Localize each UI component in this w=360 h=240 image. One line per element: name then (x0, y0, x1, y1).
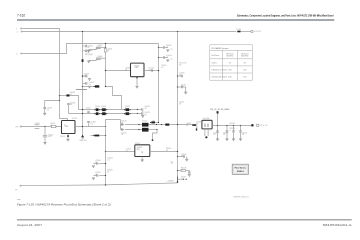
wire stub C5103 (88, 123, 90, 126)
wire U5201 output (150, 151, 178, 153)
wire U5001 to ground (136, 77, 138, 86)
capacitor C5104 (122, 123, 123, 126)
svg-text:C5011: C5011 (86, 108, 91, 110)
junction right T5101 top (99, 109, 100, 110)
capacitor C5012 (86, 82, 87, 85)
capacitor C5005 (96, 47, 101, 48)
wire stub C5209 (178, 156, 184, 158)
svg-text:R5102: R5102 (60, 136, 65, 138)
caption tick (17, 198, 21, 200)
svg-text:L5001: L5001 (237, 29, 242, 31)
junction x82.5 y126.5 (82, 126, 83, 127)
wire net B cont (241, 31, 252, 33)
pin 4 terminal (20, 185, 21, 186)
wire IF output (212, 125, 251, 127)
junction bus2 top a (156, 124, 157, 125)
wire stub R5011 (159, 47, 164, 49)
capacitor C5018 (142, 108, 143, 111)
wire U5001 output (144, 70, 159, 72)
svg-text:FL5201: FL5201 (203, 118, 209, 120)
wire bus1 top end stub (138, 109, 142, 111)
inductor L5004 body (104, 48, 106, 52)
capacitor C5205 (97, 174, 98, 177)
junction x158.6 y57.5 (158, 57, 159, 58)
wire LO stub (153, 130, 158, 140)
coupler T5103 top body (126, 108, 130, 111)
wire C5005 to ground (89, 48, 97, 49)
wire C5210 drop (188, 171, 190, 173)
wire stub C5007 (83, 75, 86, 77)
junction x105.5 y47.3 (105, 47, 106, 48)
junction x59.5 y95.5 (59, 95, 60, 96)
ground U5001 (135, 86, 138, 88)
junction x105.3 rail C (105, 43, 106, 44)
wire to C5102 (44, 127, 46, 136)
junction x105.5 y86.5 (105, 86, 106, 87)
wire stub R5208 (178, 170, 182, 172)
LNA U5101 (62, 121, 76, 134)
resistor R5102 body (67, 135, 69, 137)
svg-text:August 24, 2007: August 24, 2007 (17, 223, 43, 227)
junction right T5103 top (129, 109, 130, 110)
svg-text:5008-2: 5008-2 (237, 171, 245, 173)
junction left T5102 top (101, 109, 102, 110)
junction x82.5 bus1 top (82, 109, 83, 110)
svg-text:6816533H01-A: 6816533H01-A (323, 223, 352, 227)
capacitor C5014 (164, 56, 165, 59)
mixer U5201 (135, 145, 150, 157)
junction x177.5 y151.5 (177, 151, 178, 152)
inductor L5013 body (165, 124, 169, 126)
svg-text:39: 39 (229, 62, 231, 64)
wire bead to x158.5 (155, 122, 159, 124)
junction x82.5 y76 (82, 75, 83, 76)
IF filter FL5201 (202, 120, 212, 129)
wire vertical column x=177.5 (177, 32, 179, 183)
wire C5102 to ground (44, 137, 46, 142)
wire FL5201 pin2 drop (207, 129, 209, 136)
resistor R5208 body (181, 170, 186, 172)
junction left T5101 bottom (94, 113, 95, 114)
junction IF y125.5 d (240, 125, 241, 126)
junction x105.5 y163.5 (105, 163, 106, 164)
junction IF y125.5 a (217, 125, 218, 126)
wire C5204 to ground (93, 163, 96, 165)
junction x177.5 y87 (177, 86, 178, 87)
wire net B: pin2 supply rail (22, 31, 237, 33)
wire to ground R5011 (165, 47, 168, 49)
svg-text:GND_FLG: GND_FLG (79, 140, 87, 142)
wire bus2 top (125, 124, 142, 126)
svg-text:T5201: T5201 (142, 120, 147, 122)
junction bus2 bottom pre-block (138, 129, 139, 130)
wire to bus2 feed (106, 120, 121, 127)
junction left T5101 top (94, 109, 95, 110)
junction right T5103 bottom (129, 113, 130, 114)
capacitor C5009 (67, 104, 70, 105)
wire bottom net (21, 183, 178, 186)
svg-text:NC_IN_B: NC_IN_B (85, 54, 93, 56)
ground U5101 (66, 139, 69, 141)
wire C5214 to ground (226, 132, 228, 139)
junction x105.5 y135.5 (105, 135, 106, 136)
wire stub C5204 (99, 163, 106, 165)
coupler T5103 bottom body (126, 112, 130, 115)
wire stub C5003 (83, 45, 85, 47)
capacitor C5213 (216, 131, 219, 132)
wire C5216 to ground (240, 132, 242, 139)
svg-text:1-10V_RX_FE: 1-10V_RX_FE (254, 31, 262, 33)
junction x177.5 y156.5 (177, 156, 178, 157)
junction x158.5 y122.5 (158, 122, 159, 123)
wire to C5213 (217, 126, 219, 131)
footer rule (17, 219, 352, 221)
svg-text:7-162: 7-162 (17, 14, 25, 18)
wire bus1 bottom feed (68, 105, 70, 114)
junction bus2 top b (161, 124, 162, 125)
net flag RX_IF (217, 111, 219, 113)
wire bus2 bottom feed stub (121, 129, 125, 131)
junction bus2 top pre-block (138, 124, 139, 125)
table: RX front end versions (210, 45, 253, 80)
wire to L5008 (60, 95, 67, 97)
wire L5103 to x106 (99, 135, 105, 137)
wire stub C5017 (178, 86, 182, 88)
junction IF y125.5 c (233, 125, 234, 126)
junction x158.5 y70.5 (158, 70, 159, 71)
IC U5001 (131, 63, 145, 77)
wire to ground C5017 (183, 86, 186, 88)
ground C5204 (92, 166, 95, 168)
wire U5201 to ground (141, 157, 143, 160)
connector arrow to sheet 1 (251, 31, 253, 33)
coupler T5101 top body (96, 108, 99, 111)
wire stub C5016 (178, 75, 182, 77)
junction x82.5 rail B (82, 31, 83, 32)
wire y86.5 to mixer bead (83, 86, 96, 88)
wire to ground C5014 (165, 57, 168, 59)
capacitor C5105 (122, 128, 123, 131)
capacitor C5007 (86, 75, 87, 78)
wire y135.5 left (91, 135, 95, 137)
junction x59.5 y100.5 (59, 100, 60, 101)
wire stub C5012B (159, 57, 164, 59)
capacitor C5019 (142, 112, 143, 115)
wire L5008 to bus top (70, 96, 79, 110)
capacitor C5011A (164, 46, 165, 49)
junction x177.5 y170.5 (177, 170, 178, 171)
svg-text:U5101: U5101 (72, 118, 77, 120)
inductor L5204 body (192, 124, 196, 126)
capacitor C5010 (43, 107, 46, 108)
ground C5214 (225, 139, 228, 141)
svg-text:2: 2 (17, 31, 18, 33)
junction x82.5 y87 (82, 86, 83, 87)
inductor L5001 body (237, 31, 240, 33)
wire bus2 bottom (125, 129, 142, 131)
junction bus1 end bottom (137, 113, 138, 114)
wire vertical column x=105.3 (105, 44, 107, 87)
wire stub C5005 (96, 46, 105, 48)
inductor L5101 body (51, 125, 56, 127)
junction x177.5 rail B (177, 31, 178, 32)
svg-text:RX LNA/MIX Versions: RX LNA/MIX Versions (211, 47, 228, 50)
wire C5018/19 join (142, 110, 144, 116)
capacitor C5013 (151, 69, 152, 72)
wire bus1 bottom end stub (138, 113, 142, 115)
capacitor C5103 (87, 122, 90, 123)
capacitor C5203 body (196, 128, 197, 130)
junction left T5103 top (124, 109, 125, 110)
junction RF y126.5 (44, 126, 45, 127)
ground flag x82.5 (81, 135, 84, 138)
capacitor C5003 (85, 45, 86, 48)
capacitor C5006 (96, 58, 101, 59)
capacitor C5011 bridge (87, 111, 90, 112)
junction bus2 bottom end (156, 129, 157, 130)
svg-text:RX_IF_61.35_MHZ: RX_IF_61.35_MHZ (210, 109, 230, 111)
ground bus1 caps (141, 116, 144, 118)
wire C5010 to ground (44, 108, 46, 113)
svg-text:700 MHz: 700 MHz (226, 56, 233, 58)
capacitor C5016 (181, 75, 182, 78)
junction x105.5 y151.5 (105, 151, 106, 152)
svg-text:L5202: L5202 (170, 161, 173, 165)
capacitor C5204 (97, 162, 98, 165)
pin 1 terminal (21, 28, 22, 29)
svg-text:C5101: C5101 (35, 123, 40, 125)
capacitor C5214 (226, 131, 229, 132)
wire net C: pin3 bias rail (21, 44, 158, 54)
junction x105.5 y175.5 (105, 175, 106, 176)
junction x158.6 y47.5 (158, 47, 159, 48)
IC U5001 pin nub (136, 77, 138, 78)
wire RF in (21, 126, 62, 128)
inductor L5008 body (66, 94, 69, 96)
wire to C5214 (226, 126, 228, 131)
svg-text:L_MIXER: L_MIXER (166, 181, 174, 183)
mixer U5201 pin mark (141, 151, 143, 153)
ground C5102 (43, 142, 46, 144)
ground C5213 (216, 139, 219, 141)
76.1 (76, 89, 87, 91)
wire net A: pin1 to U5101 top (21, 29, 67, 121)
junction left L5103 (93, 135, 94, 136)
wire U5101 output (75, 126, 106, 128)
ground R5011 (166, 50, 169, 52)
wire C5006 to ground (89, 59, 97, 60)
ground C5006 (87, 61, 90, 63)
capacitor C5210 (188, 172, 191, 173)
svg-text:800 MHz: 800 MHz (241, 56, 248, 58)
capacitor C5101 (35, 125, 40, 129)
wire C5213 to ground (217, 132, 219, 139)
wire C5209 ground drop (186, 157, 188, 159)
svg-text:CR5001 BL BLVD: CR5001 BL BLVD (211, 77, 227, 79)
ground C5210 (188, 175, 191, 177)
wire to C5215 (233, 126, 235, 131)
wire FL5201 pin1 drop (204, 129, 206, 136)
wire bus2 top feed stub (121, 124, 125, 126)
wire bus1 bottom (69, 113, 138, 115)
svg-text:Part Series: Part Series (235, 167, 247, 170)
ground C5014 (166, 60, 169, 62)
header rule (17, 19, 334, 21)
ground C5010 (43, 113, 46, 115)
note box: Part Series (232, 164, 248, 174)
wire x105 to U5001 (106, 70, 131, 72)
inductor L5005 body (95, 85, 99, 87)
junction x105.5 y70.5 (105, 70, 106, 71)
junction right T5102 top (106, 109, 107, 110)
pin 2 terminal (21, 31, 22, 32)
ground C5012 (88, 86, 91, 88)
wire C5215 to ground (233, 132, 235, 139)
RF input terminal (20, 126, 22, 128)
filter T5201 bottom body (142, 128, 149, 132)
svg-text:39: 39 (244, 62, 246, 64)
wire bottom corner dark (177, 177, 179, 183)
capacitor C5004 (85, 50, 86, 53)
capacitor C5102 (43, 136, 47, 137)
ground C5007 (88, 79, 91, 81)
svg-text:P4: P4 (15, 190, 17, 192)
junction bottom right (177, 181, 179, 183)
svg-text:C5001: C5001 (211, 62, 216, 64)
junction x177.5 y124.5 (177, 124, 178, 125)
junction left R5201 (150, 122, 151, 123)
wire vertical column x=82.5 (82, 32, 84, 136)
svg-text:RX_IF_OUT: RX_IF_OUT (260, 125, 268, 127)
junction x177.5 y76 (177, 75, 178, 76)
junction right T5101 bottom (99, 113, 100, 114)
junction right T5102 bottom (106, 113, 107, 114)
capacitor C5216 (239, 131, 242, 132)
svg-text:51: 51 (171, 58, 173, 60)
svg-text:OSSPF-47823-O: OSSPF-47823-O (233, 197, 249, 199)
junction left of L5005 (94, 86, 95, 87)
ground C5205 (92, 178, 95, 180)
wire vertical bias column x=158.6 (158, 44, 160, 123)
ground C5216 (239, 139, 242, 141)
junction left T5102 bottom (101, 113, 102, 114)
svg-text:U5201: U5201 (135, 143, 140, 145)
coupler T5102 top body (102, 108, 106, 111)
junction bus1 end top (137, 109, 138, 110)
wire bus2 feed vertical (120, 120, 122, 130)
connector pin RX IF out (251, 124, 253, 126)
svg-text:Figure 7-135. HUF4017A Receiv: Figure 7-135. HUF4017A Receiver Front-En… (17, 202, 111, 206)
wire stub C5004 (83, 50, 85, 52)
wire R5208 to C5210 (186, 170, 190, 172)
ground U5201 (141, 160, 144, 162)
junction IF y125.5 b (226, 125, 227, 126)
ground C5005 (87, 50, 90, 52)
ground C5209 (185, 159, 188, 161)
wire U5101 to ground (67, 134, 69, 139)
ground C5215 (232, 139, 235, 141)
ferrite bead E5001 body (82, 59, 84, 62)
svg-text:Part/Conn: Part/Conn (211, 54, 219, 57)
FL5201 pin marks (205, 124, 209, 127)
wire RX_IF flag drop (217, 114, 219, 126)
capacitor C5209 (183, 155, 184, 158)
wire x59.5 lower segment (59, 96, 61, 101)
svg-text:CR5001 IC BLVD: CR5001 IC BLVD (211, 70, 227, 72)
junction R5211 b (186, 179, 187, 180)
svg-text:3: 3 (16, 53, 17, 55)
junction x82.5 bus1 bottom (82, 113, 83, 114)
filter T5201 top body (142, 123, 149, 127)
inductor L5103 body (95, 135, 100, 137)
wire to C5216 (240, 126, 242, 131)
resistor R5201 body (151, 121, 155, 123)
svg-text:Schematics, Component Location: Schematics, Component Location Diagrams,… (237, 14, 334, 18)
wire C5205 to ground (93, 175, 96, 177)
ground C5017 (184, 92, 187, 94)
wire L5204 stub down (196, 126, 198, 129)
wire stub C5205 (99, 175, 106, 177)
wire x106 to U5201 (106, 151, 135, 153)
junction R5211 a (183, 179, 184, 180)
junction left T5103 bottom (124, 113, 125, 114)
capacitor C5017 (181, 86, 182, 89)
junction x106 bottom (105, 184, 106, 185)
wire to C5010 (45, 101, 60, 108)
junction LO blob (152, 139, 154, 141)
coupler T5102 bottom body (102, 112, 106, 115)
coupler T5101 bottom body (96, 112, 99, 115)
wire bus2 out to FL5201 (149, 124, 197, 126)
junction x105.5 y126.5 (105, 126, 106, 127)
wire bus2 bottom out (149, 129, 158, 131)
wire bus1 top (79, 109, 138, 111)
FL5201 ground pad (205, 136, 207, 138)
wire stub C5012A (83, 82, 86, 84)
wire vertical x106 to bottom (105, 127, 107, 185)
svg-text:1: 1 (16, 28, 17, 30)
pin 3 terminal (21, 53, 22, 54)
capacitor C5215 (232, 131, 235, 132)
connector symbol RX IF out (257, 124, 259, 126)
wire stub C5006 (96, 57, 105, 59)
wire C5017 ground drop (185, 87, 187, 92)
wire stub R5211 (178, 178, 184, 180)
svg-text:C5: C5 (170, 49, 172, 51)
wire staircase to filter bus (106, 87, 122, 110)
